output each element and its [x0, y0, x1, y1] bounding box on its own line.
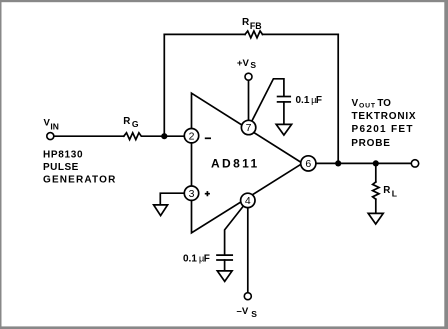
wire feedback top right segment [263, 33, 339, 35]
resistor RL zigzag [373, 182, 379, 199]
terminal VIN [47, 133, 54, 140]
svg-text:IN: IN [50, 121, 59, 131]
wire +VS supply to pin 7 [248, 80, 250, 128]
svg-text:FB: FB [250, 21, 262, 31]
svg-text:0.1: 0.1 [296, 95, 310, 106]
terminal -VS [244, 293, 251, 300]
svg-text:3: 3 [189, 188, 195, 200]
svg-text:V: V [352, 98, 359, 109]
svg-text:F: F [316, 95, 322, 106]
terminal VOUT [411, 160, 418, 167]
svg-text:GENERATOR: GENERATOR [43, 174, 117, 185]
ground for C2 [217, 271, 232, 282]
terminal +VS [245, 73, 252, 80]
resistor RFB zigzag [245, 31, 263, 38]
wire pin 7 to bypass cap [249, 79, 284, 128]
wire cap C1 to ground [283, 102, 285, 124]
svg-text:G: G [132, 119, 139, 129]
svg-text:+V: +V [237, 58, 250, 69]
svg-text:HP8130: HP8130 [43, 150, 83, 161]
svg-text:2: 2 [189, 131, 195, 143]
junction node at RL [373, 160, 379, 166]
wire feedback top left segment [164, 33, 245, 35]
op-amp U1 triangle [192, 93, 303, 233]
svg-text:7: 7 [246, 122, 252, 134]
wire feedback left vertical [163, 34, 165, 136]
wire input from VIN to pin 2 [54, 135, 124, 137]
svg-text:–V: –V [237, 306, 249, 317]
svg-text:F: F [204, 254, 210, 265]
svg-text:TO: TO [377, 98, 391, 109]
wire output pin 6 to terminal [308, 162, 411, 164]
svg-text:R: R [383, 185, 390, 196]
svg-text:PROBE: PROBE [351, 138, 391, 149]
capacitor C1 0.1uF plates [278, 96, 291, 98]
svg-text:4: 4 [245, 195, 251, 207]
ground for pin 3 [154, 205, 168, 216]
svg-text:L: L [392, 189, 397, 199]
svg-text:S: S [251, 309, 257, 319]
wire cap C2 to ground [224, 260, 226, 270]
svg-text:R: R [123, 116, 130, 127]
minus sign at pin 2 [205, 137, 211, 139]
svg-text:TEKTRONIX: TEKTRONIX [352, 111, 417, 122]
wire pin 4 to -VS supply [247, 200, 249, 292]
junction node at inverting input [161, 133, 167, 139]
pin 7 circle [241, 120, 255, 134]
ground for C1 [276, 124, 291, 135]
ground for RL [368, 213, 383, 224]
pin 6 circle [301, 156, 316, 171]
svg-text:AD811: AD811 [211, 157, 260, 171]
svg-text:S: S [250, 60, 256, 70]
junction node at output/feedback [335, 160, 341, 166]
wire pin 4 to bypass cap C2 [225, 200, 248, 254]
pin 3 circle [184, 186, 198, 200]
plus sign at pin 3 [205, 191, 210, 196]
wire feedback right vertical to output node [337, 34, 339, 163]
wire RL to ground [375, 199, 377, 213]
wire output node to RL [375, 163, 377, 182]
svg-text:PULSE: PULSE [43, 162, 79, 173]
wire pin 3 to ground [160, 193, 191, 205]
pin 4 circle [241, 193, 255, 207]
pin 2 circle [184, 129, 198, 143]
svg-text:P6201 FET: P6201 FET [352, 124, 414, 135]
svg-text:OUT: OUT [359, 103, 376, 110]
resistor RG zigzag [124, 133, 192, 140]
svg-text:R: R [242, 17, 250, 28]
capacitor C2 0.1uF plates [217, 254, 232, 256]
svg-text:6: 6 [305, 158, 311, 170]
svg-text:0.1: 0.1 [183, 254, 197, 265]
